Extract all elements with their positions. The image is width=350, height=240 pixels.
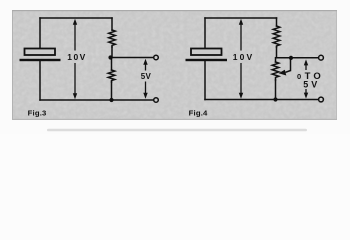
wire: left branch lower (battery -)	[39, 62, 41, 101]
svg-text:Fig.4: Fig.4	[189, 108, 208, 117]
svg-text:10V: 10V	[233, 52, 255, 62]
wiper arrow Fig.4	[279, 70, 291, 76]
potentiometer lower section Fig.4	[272, 62, 279, 80]
terminal: top output circle Fig.4	[319, 55, 324, 60]
node: junction dot R1/R2/output Fig.3	[108, 55, 112, 59]
dimension line 0-5V Fig.4	[304, 59, 308, 98]
terminal: bottom output circle Fig.4	[319, 97, 324, 102]
wire: stub pot-upper to output corner	[276, 47, 278, 58]
dimension line 5V Fig.3	[143, 59, 147, 99]
wire: wiper riser Fig.4	[290, 59, 292, 71]
battery cell Fig.4: top plate (box)	[191, 49, 222, 56]
battery cell Fig.4: bottom plate (thick bar)	[186, 59, 228, 61]
wire: left branch upper (battery +) Fig.4	[204, 18, 206, 49]
svg-text:Fig.3: Fig.3	[28, 108, 47, 117]
svg-text:10V: 10V	[67, 52, 86, 62]
wire: top wire Fig.4	[205, 17, 277, 19]
wire: bottom wire Fig.3	[40, 99, 153, 101]
battery cell Fig.3: bottom plate (thick bar)	[20, 59, 61, 61]
node: junction dot pot/bottom wire Fig.4	[273, 97, 277, 101]
terminal: top output circle Fig.3	[154, 55, 159, 60]
resistor R1 (upper) Fig.3	[109, 30, 116, 47]
wire: right branch top stub	[111, 18, 113, 30]
wire: left branch lower (battery -) Fig.4	[204, 62, 206, 100]
dimension line 10V Fig.3	[73, 19, 77, 100]
svg-text:5V: 5V	[303, 79, 320, 89]
node: junction dot R2/bottom wire Fig.3	[109, 98, 113, 102]
dimension line 10V Fig.4	[239, 19, 243, 99]
wire: stub pot-lower to bottom wire	[275, 80, 277, 100]
wire: bottom wire Fig.4	[205, 99, 318, 101]
wire: output wire top Fig.4	[277, 57, 319, 59]
battery cell Fig.3: top plate (box)	[25, 49, 56, 56]
node: junction dot wiper/output Fig.4	[289, 56, 293, 60]
wire: stub output corner to pot-lower	[275, 58, 277, 62]
wire: stub R1 to junction	[111, 47, 113, 58]
terminal: bottom output circle Fig.3	[154, 98, 159, 103]
wire: stub junction to R2	[111, 58, 113, 71]
wire: top wire Fig.3	[40, 17, 112, 19]
svg-text:5V: 5V	[141, 72, 152, 81]
wire: right branch top stub Fig.4	[276, 18, 278, 26]
wire: stub R2 to bottom wire	[111, 82, 113, 100]
resistor R2 (lower) Fig.3	[108, 70, 115, 82]
wire: left branch upper (battery +)	[39, 18, 41, 49]
potentiometer upper section Fig.4	[273, 26, 280, 47]
wire: output wire top Fig.3	[111, 57, 154, 59]
